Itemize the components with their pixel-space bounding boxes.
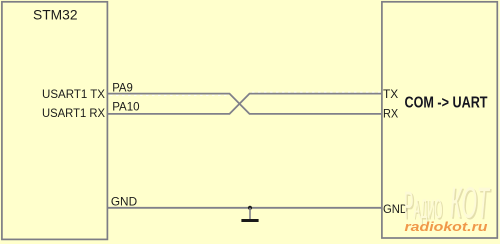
svg-text:PA9: PA9 <box>112 80 133 94</box>
wire PA10 to TX (crossover lower-left to upper-right) <box>108 94 382 114</box>
svg-text:USART1 RX: USART1 RX <box>42 106 105 120</box>
IC box U2 COM->UART converter <box>382 2 497 238</box>
svg-text:radiokot.ru: radiokot.ru <box>405 220 488 234</box>
IC box U1 STM32 <box>2 2 108 240</box>
wire PA9 to RX (crossover upper-left to lower-right) <box>108 94 382 114</box>
svg-text:TX: TX <box>383 87 398 101</box>
svg-text:GND: GND <box>111 194 138 208</box>
junction node on GND wire <box>248 206 252 210</box>
svg-text:COM -> UART: COM -> UART <box>405 94 488 111</box>
svg-text:RX: RX <box>383 107 398 121</box>
ground symbol bar <box>241 219 258 222</box>
svg-text:PA10: PA10 <box>112 99 140 113</box>
svg-text:STM32: STM32 <box>33 6 78 22</box>
white dash artifact under wire <box>110 94 228 96</box>
ground stub wire <box>249 208 251 219</box>
white dash artifact above wire <box>252 91 380 93</box>
wire GND net <box>108 207 382 209</box>
svg-text:USART1 TX: USART1 TX <box>42 87 105 101</box>
